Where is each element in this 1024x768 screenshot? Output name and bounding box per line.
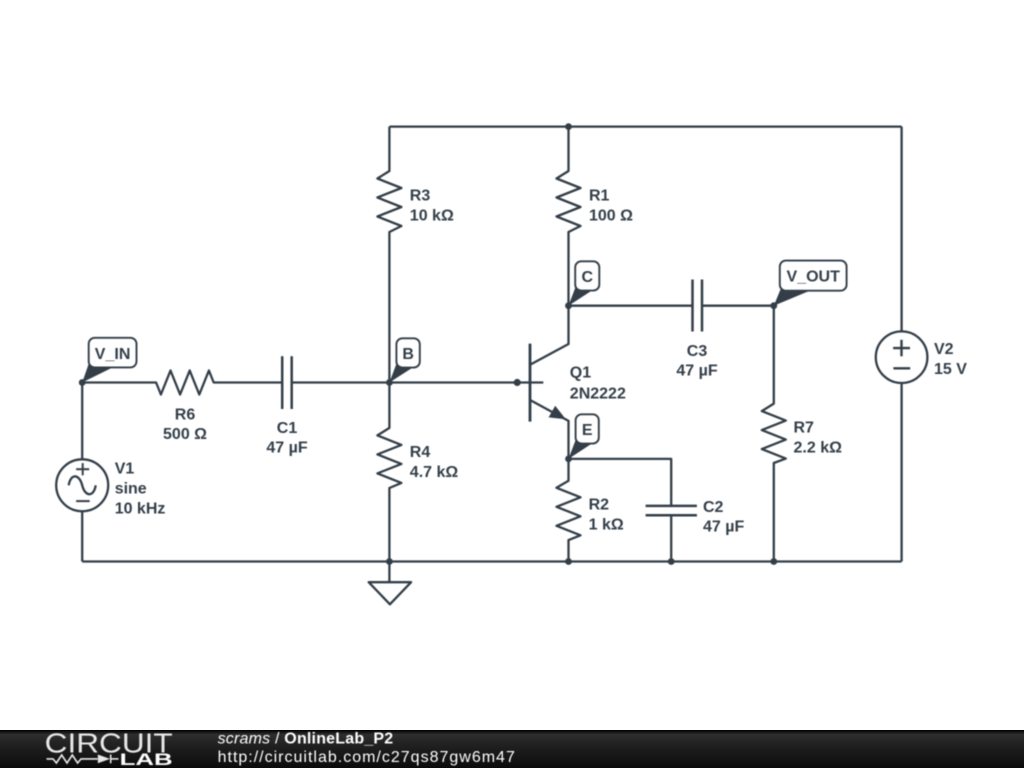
capacitor C3 [676, 280, 773, 380]
svg-text:47 µF: 47 µF [676, 363, 717, 380]
svg-text:R7: R7 [794, 419, 815, 436]
resistor R6 [82, 371, 282, 444]
svg-text:C2: C2 [703, 499, 724, 516]
node E junction dot [565, 456, 572, 463]
capacitor C2 [646, 499, 745, 562]
svg-text:V2: V2 [934, 341, 954, 358]
svg-text:C1: C1 [277, 420, 298, 437]
svg-text:R6: R6 [175, 407, 196, 424]
svg-text:E: E [582, 422, 593, 439]
wire bottom ground rail from V1 to V2 [82, 560, 901, 562]
emitter diagonal with arrow and lead [531, 400, 569, 459]
svg-text:47 µF: 47 µF [266, 440, 307, 457]
footer text [0, 730, 560, 768]
svg-text:500 Ω: 500 Ω [163, 426, 207, 443]
node B junction dot [386, 379, 393, 386]
svg-text:10 kΩ: 10 kΩ [410, 208, 454, 225]
flag C [569, 261, 600, 305]
base bar [529, 344, 532, 422]
footer bar [0, 730, 1024, 768]
ground [369, 562, 411, 605]
svg-text:B: B [402, 346, 414, 363]
flag V_IN [82, 338, 136, 383]
base pin dot [514, 379, 521, 386]
flag E [569, 414, 599, 459]
collector diagonal and lead [531, 306, 569, 365]
svg-text:2N2222: 2N2222 [570, 385, 626, 402]
junction dot R2 bottom [565, 558, 572, 565]
svg-text:2.2 kΩ: 2.2 kΩ [794, 439, 843, 456]
svg-text:100 Ω: 100 Ω [589, 208, 633, 225]
junction dot R4 bottom [386, 558, 393, 565]
svg-text:R3: R3 [410, 188, 431, 205]
wire node E to C2 [569, 459, 672, 506]
capacitor C1 [266, 356, 389, 456]
CircuitLab logo [0, 730, 200, 768]
node C junction dot [565, 302, 572, 309]
node V_OUT junction dot [770, 302, 777, 309]
svg-text:sine: sine [115, 481, 147, 498]
svg-text:4.7 kΩ: 4.7 kΩ [410, 464, 459, 481]
junction dot C2 bottom [668, 558, 675, 565]
svg-text:C: C [582, 269, 594, 286]
svg-text:10 kHz: 10 kHz [115, 500, 166, 517]
svg-text:R1: R1 [589, 188, 610, 205]
svg-text:R2: R2 [589, 497, 610, 514]
resistor R4 [377, 383, 458, 562]
svg-text:R4: R4 [410, 444, 431, 461]
svg-text:1 kΩ: 1 kΩ [589, 517, 624, 534]
svg-text:V_IN: V_IN [95, 346, 131, 363]
flag B [389, 338, 419, 382]
wire top rail from R3 top to V2 top [389, 125, 901, 127]
wire node C to C3 [569, 305, 693, 307]
transistor Q1 2N2222 [389, 306, 626, 459]
resistor R3 [377, 127, 454, 383]
junction dot R7 bottom [770, 558, 777, 565]
node V_IN junction dot [79, 379, 86, 386]
svg-text:Q1: Q1 [570, 364, 591, 381]
flag V_OUT [774, 261, 847, 306]
svg-text:V_OUT: V_OUT [787, 269, 841, 286]
svg-text:V1: V1 [115, 461, 135, 478]
svg-text:15 V: 15 V [934, 361, 967, 378]
resistor R7 [762, 306, 842, 562]
svg-text:scrams / OnlineLab_P2: scrams / OnlineLab_P2 [218, 731, 394, 748]
voltage source V1 [56, 383, 165, 562]
svg-text:http://circuitlab.com/c27qs87g: http://circuitlab.com/c27qs87gw6m47 [218, 749, 516, 766]
voltage source V2 [876, 127, 967, 562]
svg-text:C3: C3 [687, 343, 708, 360]
svg-text:47 µF: 47 µF [703, 519, 744, 536]
node top junction dot at R1 top [565, 123, 572, 130]
base lead wire from node B [389, 381, 543, 383]
resistor R1 [557, 127, 634, 306]
resistor R2 [557, 459, 624, 562]
